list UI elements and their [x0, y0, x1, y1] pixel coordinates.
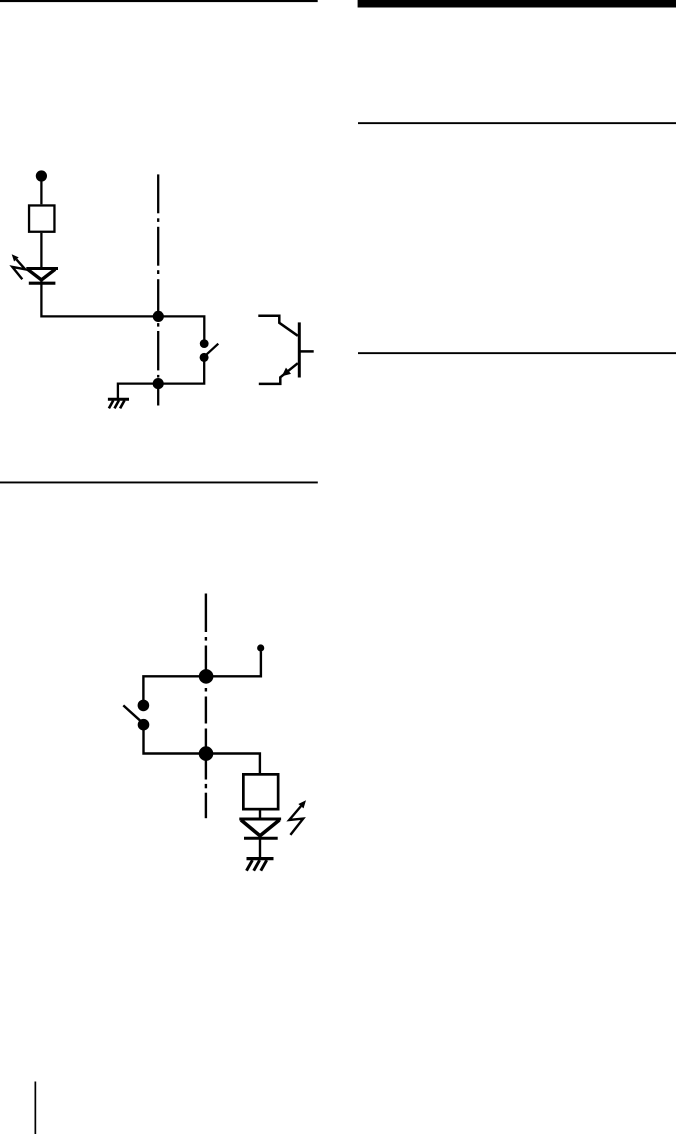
resistor R1: [29, 205, 54, 231]
header bar right column: [358, 0, 676, 8]
header rule left column: [0, 0, 318, 2]
transistor Q1 (equivalent circuit): [258, 316, 313, 384]
footer page tick: [35, 1082, 37, 1134]
wire R2 to LED D2: [259, 811, 261, 820]
terminal dot diagram 2: [257, 644, 264, 651]
node J1: [153, 311, 164, 322]
wire J4 to resistor R2: [206, 754, 260, 774]
wire S2 to node J4: [144, 725, 207, 754]
emitter arrow Q1: [282, 368, 291, 377]
chain line (unit boundary) diagram 1: [157, 174, 159, 405]
node J2: [153, 378, 164, 389]
section rule left: [0, 482, 318, 484]
wire R1 to LED D1: [40, 233, 42, 269]
switch S1 top contact: [200, 339, 209, 348]
wire terminal to resistor R1: [40, 176, 42, 204]
section rule right middle: [358, 352, 676, 354]
node J3: [199, 669, 214, 684]
switch S1 bottom contact: [200, 353, 209, 362]
wire D2 to ground: [259, 835, 261, 858]
node J4: [199, 746, 214, 761]
switch S2 blade: [123, 705, 141, 721]
wire J3 to switch S2: [143, 676, 206, 705]
LED D2: [239, 819, 281, 838]
switch S2 bottom contact: [138, 719, 150, 731]
switch S1 blade: [206, 344, 219, 356]
ground diagram 2: [247, 859, 274, 871]
terminal dot diagram 1: [36, 170, 47, 181]
ground diagram 1: [108, 399, 129, 408]
wire J1 to switch S1: [158, 316, 204, 343]
wire J2 to ground: [118, 384, 158, 399]
wire terminal to node J3: [206, 651, 261, 676]
emitter lead Q1: [259, 363, 298, 384]
wire D1 to node J1: [41, 279, 158, 317]
switch S2 top contact: [138, 700, 150, 712]
wire S1 to node J2: [158, 357, 204, 383]
base bar Q1: [298, 322, 301, 377]
light emission arrow D2: [289, 800, 306, 835]
section rule right top: [358, 122, 676, 124]
base lead Q1: [299, 350, 313, 353]
LED D1: [26, 269, 58, 284]
resistor R2: [243, 774, 278, 809]
chain line (unit boundary) diagram 2: [205, 594, 207, 819]
collector lead Q1: [258, 316, 298, 336]
light emission arrow D1: [12, 254, 26, 279]
